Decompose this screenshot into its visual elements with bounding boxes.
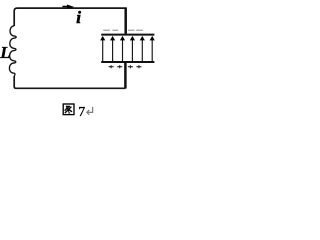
- svg-text:i: i: [76, 8, 81, 27]
- svg-text:L: L: [0, 43, 11, 62]
- svg-text:7: 7: [78, 105, 85, 120]
